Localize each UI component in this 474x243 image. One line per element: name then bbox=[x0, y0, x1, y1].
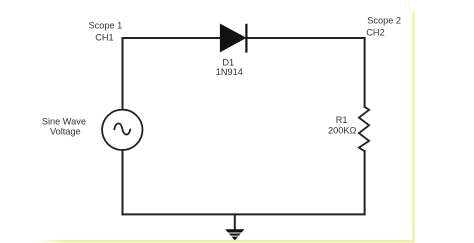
diode D1 cathode bar bbox=[245, 24, 247, 53]
wire left vertical upper (V1 top to top wire) bbox=[122, 38, 124, 110]
svg-text:CH1: CH1 bbox=[95, 32, 113, 42]
wire bottom horizontal bbox=[123, 213, 365, 215]
svg-text:D1: D1 bbox=[222, 57, 234, 67]
wire right vertical lower (R1 bottom to bottom wire) bbox=[364, 151, 366, 214]
wire left vertical lower (V1 bottom to bottom wire) bbox=[122, 150, 124, 214]
voltage source V1 sine symbol bbox=[114, 123, 130, 134]
svg-text:200KΩ: 200KΩ bbox=[328, 125, 356, 135]
svg-text:CH2: CH2 bbox=[366, 28, 384, 38]
svg-text:1N914: 1N914 bbox=[216, 67, 243, 77]
wire right vertical upper (top wire to R1 top) bbox=[364, 38, 366, 107]
diode D1 triangle bbox=[220, 24, 245, 51]
resistor R1 zigzag bbox=[359, 107, 369, 151]
svg-text:R1: R1 bbox=[336, 115, 348, 125]
voltage source V1 circle bbox=[102, 110, 142, 150]
svg-text:Sine Wave: Sine Wave bbox=[42, 117, 86, 127]
wire ground stub bbox=[234, 214, 236, 229]
wire top-right horizontal (D1 cathode to node CH2) bbox=[247, 37, 364, 39]
svg-text:Scope 1: Scope 1 bbox=[89, 20, 123, 30]
svg-text:Voltage: Voltage bbox=[50, 127, 81, 137]
ground symbol bbox=[224, 229, 246, 240]
wire top-left horizontal (node CH1 to D1 anode) bbox=[123, 37, 221, 39]
svg-text:Scope 2: Scope 2 bbox=[367, 16, 401, 26]
